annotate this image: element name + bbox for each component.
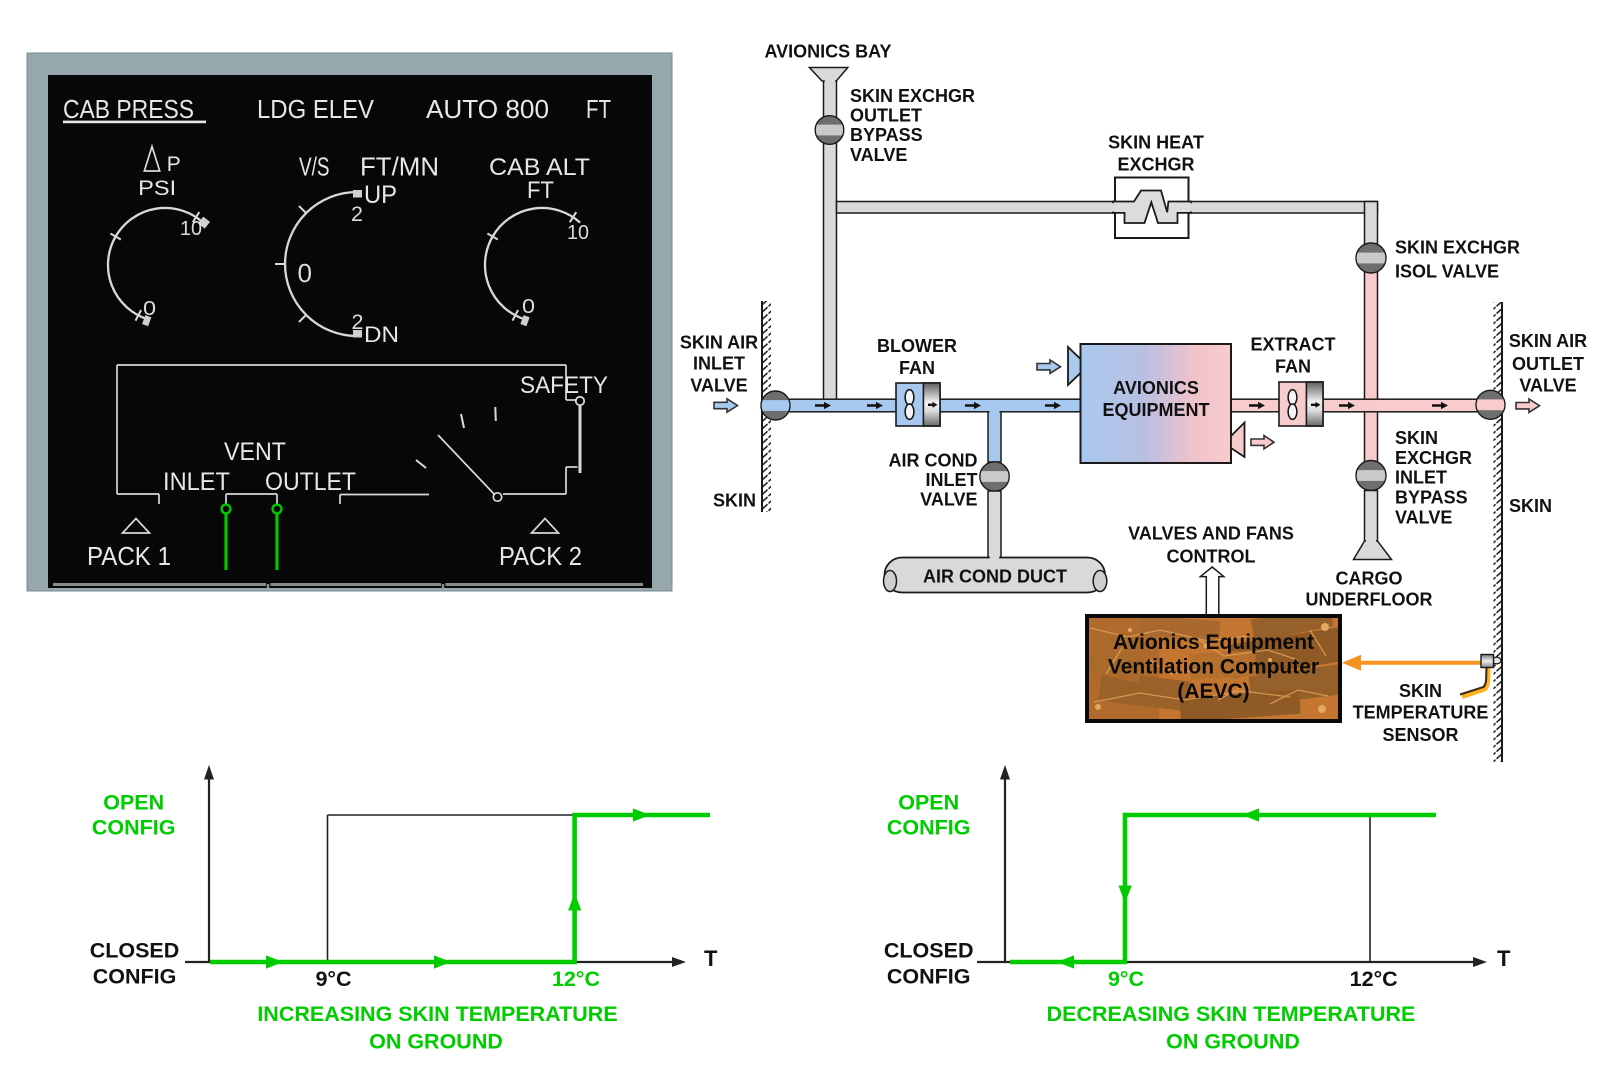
svg-text:VENT: VENT (224, 438, 286, 466)
right SKIN label (1509, 496, 1552, 516)
svg-text:12°C: 12°C (1350, 967, 1398, 991)
outlet horn on avionics equipment (1231, 423, 1245, 458)
svg-text:VALVE: VALVE (850, 145, 907, 165)
graph 2 caption (1047, 1002, 1416, 1054)
svg-text:SAFETY: SAFETY (520, 372, 608, 399)
svg-text:AUTO 800: AUTO 800 (426, 94, 549, 124)
skin exchgr inlet bypass valve (1354, 461, 1387, 491)
skin exchgr isol valve (1354, 243, 1387, 273)
pink outline outlet flow arrow (1516, 399, 1540, 412)
svg-text:SKIN HEAT: SKIN HEAT (1108, 133, 1204, 153)
PACK 1 triangle and label (87, 519, 171, 572)
svg-text:FT: FT (586, 94, 611, 124)
skin air inlet valve on wall (760, 391, 791, 420)
svg-text:ISOL VALVE: ISOL VALVE (1395, 262, 1499, 282)
graph 2 CLOSED CONFIG label (884, 939, 974, 989)
SKIN AIR OUTLET VALVE label (1509, 331, 1587, 396)
svg-text:BYPASS: BYPASS (1395, 488, 1468, 508)
svg-text:0: 0 (143, 298, 156, 320)
svg-text:PSI: PSI (138, 177, 176, 200)
svg-text:INLET: INLET (926, 470, 978, 490)
right vertical gray pipe above isol valve (1365, 202, 1378, 245)
BLOWER FAN label (877, 336, 957, 378)
svg-text:OPEN: OPEN (103, 791, 164, 815)
graph 1 x-axis (185, 946, 718, 971)
svg-text:VALVE: VALVE (920, 490, 977, 510)
svg-text:PACK 1: PACK 1 (87, 541, 171, 571)
svg-text:SKIN AIR: SKIN AIR (1509, 331, 1587, 351)
cargo underfloor funnel (1354, 539, 1392, 559)
ECAM bottom divider lines (53, 584, 643, 588)
svg-text:INLET: INLET (1395, 468, 1447, 488)
skin temperature sensor wire (1460, 667, 1488, 697)
SKIN TEMPERATURE SENSOR label (1353, 681, 1489, 745)
svg-text:EXTRACT: EXTRACT (1251, 335, 1336, 355)
svg-text:SKIN EXCHGR: SKIN EXCHGR (1395, 238, 1520, 258)
skin exchgr outlet bypass valve (814, 116, 845, 145)
graph 1 hysteresis thin black lines (328, 815, 575, 962)
EXTRACT FAN label (1251, 335, 1336, 377)
svg-text:UP: UP (364, 181, 397, 209)
svg-text:2: 2 (352, 311, 364, 334)
graph 1 green step curve (210, 815, 710, 962)
skin temperature sensor body (1481, 655, 1501, 668)
graph 1 CLOSED CONFIG label (90, 939, 180, 989)
svg-text:CONFIG: CONFIG (92, 816, 176, 840)
svg-text:FAN: FAN (899, 358, 935, 378)
graph 2 y-axis (1000, 765, 1010, 963)
svg-text:CONFIG: CONFIG (887, 965, 971, 989)
svg-text:CONTROL: CONTROL (1167, 547, 1256, 567)
svg-text:DECREASING SKIN TEMPERATURE: DECREASING SKIN TEMPERATURE (1047, 1002, 1416, 1026)
SKIN EXCHGR ISOL VALVE label (1395, 238, 1520, 282)
svg-text:EQUIPMENT: EQUIPMENT (1102, 400, 1209, 420)
flow arrows on blue pipe (815, 402, 1061, 409)
svg-text:UNDERFLOOR: UNDERFLOOR (1306, 590, 1433, 610)
ECAM title LDG ELEV AUTO 800 FT (257, 94, 611, 124)
svg-text:OUTLET: OUTLET (850, 106, 922, 126)
Delta-P PSI gauge (108, 147, 210, 327)
svg-text:2: 2 (351, 203, 363, 226)
green vent inlet needle (222, 505, 231, 570)
SKIN AIR INLET VALVE label (680, 333, 758, 396)
svg-text:SKIN: SKIN (1399, 681, 1442, 701)
SKIN EXCHGR OUTLET BYPASS VALVE label (850, 86, 975, 165)
svg-text:VALVE: VALVE (1519, 376, 1576, 396)
blower fan (896, 383, 940, 426)
svg-text:FT/MN: FT/MN (360, 152, 439, 182)
svg-text:SKIN: SKIN (1395, 428, 1438, 448)
vent outflow flapper valve (open) with hinge (416, 407, 502, 501)
right aircraft skin wall with hatching (1494, 302, 1503, 762)
graph 1 green arrowheads (266, 808, 650, 968)
inlet horn on avionics equipment (1068, 347, 1081, 385)
AVIONICS BAY label (764, 42, 891, 62)
air cond duct cylinder (884, 555, 1107, 592)
ECAM CRT black screen (48, 75, 652, 588)
svg-text:T: T (704, 946, 718, 971)
svg-text:Ventilation Computer: Ventilation Computer (1108, 656, 1319, 679)
svg-text:DN: DN (364, 322, 399, 347)
gray pipe from valve down to air cond duct (988, 491, 1001, 559)
svg-text:CAB PRESS: CAB PRESS (63, 94, 194, 124)
svg-text:INLET: INLET (693, 354, 745, 374)
graph 2 green step curve (1010, 815, 1436, 962)
graph 2 hysteresis thin black line at 12C (1369, 815, 1371, 962)
svg-text:VALVES AND FANS: VALVES AND FANS (1128, 524, 1294, 544)
svg-text:P: P (167, 153, 181, 176)
V/S FT/MN gauge (275, 152, 439, 348)
graph 1 OPEN CONFIG label (92, 791, 176, 840)
VALVES AND FANS CONTROL label (1128, 524, 1294, 567)
svg-text:LDG ELEV: LDG ELEV (257, 94, 375, 124)
svg-text:EXCHGR: EXCHGR (1117, 155, 1194, 175)
svg-text:VALVE: VALVE (690, 376, 747, 396)
graph 1 caption (257, 1002, 617, 1054)
svg-text:CLOSED: CLOSED (90, 939, 180, 963)
svg-text:SKIN: SKIN (1509, 496, 1552, 516)
blue outline arrow at avionics bay inlet horn (1037, 360, 1061, 373)
svg-text:12°C: 12°C (552, 967, 600, 991)
avionics bay funnel (809, 68, 847, 84)
svg-text:10: 10 (180, 218, 202, 240)
svg-text:FAN: FAN (1275, 357, 1311, 377)
left SKIN label (713, 491, 756, 511)
CARGO UNDERFLOOR label (1306, 569, 1433, 610)
svg-text:SKIN EXCHGR: SKIN EXCHGR (850, 86, 975, 106)
svg-text:CONFIG: CONFIG (887, 816, 971, 840)
svg-text:SENSOR: SENSOR (1382, 725, 1458, 745)
svg-text:AIR COND DUCT: AIR COND DUCT (923, 567, 1067, 587)
svg-text:SKIN: SKIN (713, 491, 756, 511)
pink vertical pipe from isol valve through cross to inlet bypass valve (1365, 272, 1378, 462)
svg-text:BYPASS: BYPASS (850, 125, 923, 145)
svg-text:Avionics Equipment: Avionics Equipment (1113, 631, 1314, 654)
svg-text:9°C: 9°C (1108, 967, 1144, 991)
skin heat exchanger box with zigzag (1110, 178, 1195, 239)
white block arrow from AEVC up (1200, 567, 1223, 616)
graph 2 temperature labels (1108, 967, 1398, 991)
graph 1 temperature labels (315, 967, 600, 991)
svg-text:ON GROUND: ON GROUND (369, 1030, 503, 1054)
graph 1 y-axis (204, 765, 214, 963)
PACK 2 triangle and label (499, 519, 582, 572)
graph 2 x-axis (977, 946, 1511, 971)
svg-text:AVIONICS: AVIONICS (1113, 378, 1199, 398)
svg-text:(AEVC): (AEVC) (1177, 680, 1249, 703)
svg-text:0: 0 (298, 258, 313, 288)
svg-text:INLET: INLET (163, 468, 230, 496)
svg-text:EXCHGR: EXCHGR (1395, 448, 1472, 468)
svg-text:OUTLET: OUTLET (1512, 354, 1584, 374)
svg-text:OUTLET: OUTLET (265, 468, 356, 496)
pink outline arrow at outlet horn (1251, 436, 1274, 449)
graph 2 OPEN CONFIG label (887, 791, 971, 840)
svg-text:FT: FT (527, 177, 554, 204)
CAB ALT FT gauge (485, 154, 590, 326)
air cond branch vertical blue pipe (988, 403, 1001, 462)
VENT INLET OUTLET labels (163, 438, 356, 496)
green vent outlet needle (273, 505, 282, 570)
air cond inlet valve (979, 462, 1011, 491)
svg-text:AIR COND: AIR COND (889, 451, 978, 471)
avionics equipment box (1081, 344, 1232, 463)
SKIN HEAT EXCHGR label (1108, 133, 1204, 175)
svg-text:TEMPERATURE: TEMPERATURE (1353, 703, 1489, 723)
left aircraft skin wall with hatching (762, 301, 771, 512)
orange arrow from skin temperature sensor to AEVC (1342, 655, 1481, 671)
svg-text:CONFIG: CONFIG (93, 965, 177, 989)
SKIN EXCHGR INLET BYPASS VALVE label (1395, 428, 1472, 528)
svg-text:T: T (1497, 946, 1511, 971)
svg-text:VALVE: VALVE (1395, 508, 1452, 528)
avionics bay vertical gray pipe (824, 81, 837, 400)
safety valve (closed) (520, 372, 608, 473)
svg-text:OPEN: OPEN (898, 791, 959, 815)
svg-text:0: 0 (522, 296, 535, 318)
main pink pipe from avionics equipment to skin air outlet valve (1231, 399, 1491, 412)
svg-text:CARGO: CARGO (1336, 569, 1403, 589)
svg-text:10: 10 (567, 222, 589, 244)
svg-text:PACK 2: PACK 2 (499, 541, 582, 571)
horizontal gray pipe to skin heat exchanger (837, 202, 1378, 214)
flow arrows on pink pipe (1249, 402, 1448, 409)
cabin vent duct outline box (117, 365, 578, 504)
svg-text:AVIONICS BAY: AVIONICS BAY (764, 42, 891, 62)
ECAM title CAB PRESS with underline (63, 94, 206, 124)
svg-text:SKIN AIR: SKIN AIR (680, 333, 758, 353)
AEVC computer box with circuit board texture (1087, 605, 1346, 723)
svg-text:INCREASING SKIN TEMPERATURE: INCREASING SKIN TEMPERATURE (257, 1002, 617, 1026)
AIR COND INLET VALVE label (889, 451, 978, 510)
main blue pipe from skin air inlet valve to avionics equipment (775, 399, 1081, 413)
svg-text:ON GROUND: ON GROUND (1166, 1030, 1300, 1054)
ECAM display bezel frame (27, 53, 672, 591)
svg-text:V/S: V/S (299, 152, 330, 182)
svg-text:9°C: 9°C (315, 967, 351, 991)
extract fan (1279, 382, 1323, 426)
graph 2 green arrowheads (1057, 808, 1259, 968)
svg-text:BLOWER: BLOWER (877, 336, 957, 356)
gray pipe from bypass valve to cargo funnel (1365, 491, 1378, 542)
svg-text:CLOSED: CLOSED (884, 939, 974, 963)
skin air outlet valve on wall (1475, 390, 1506, 419)
blue outline inlet flow arrow (714, 399, 738, 412)
